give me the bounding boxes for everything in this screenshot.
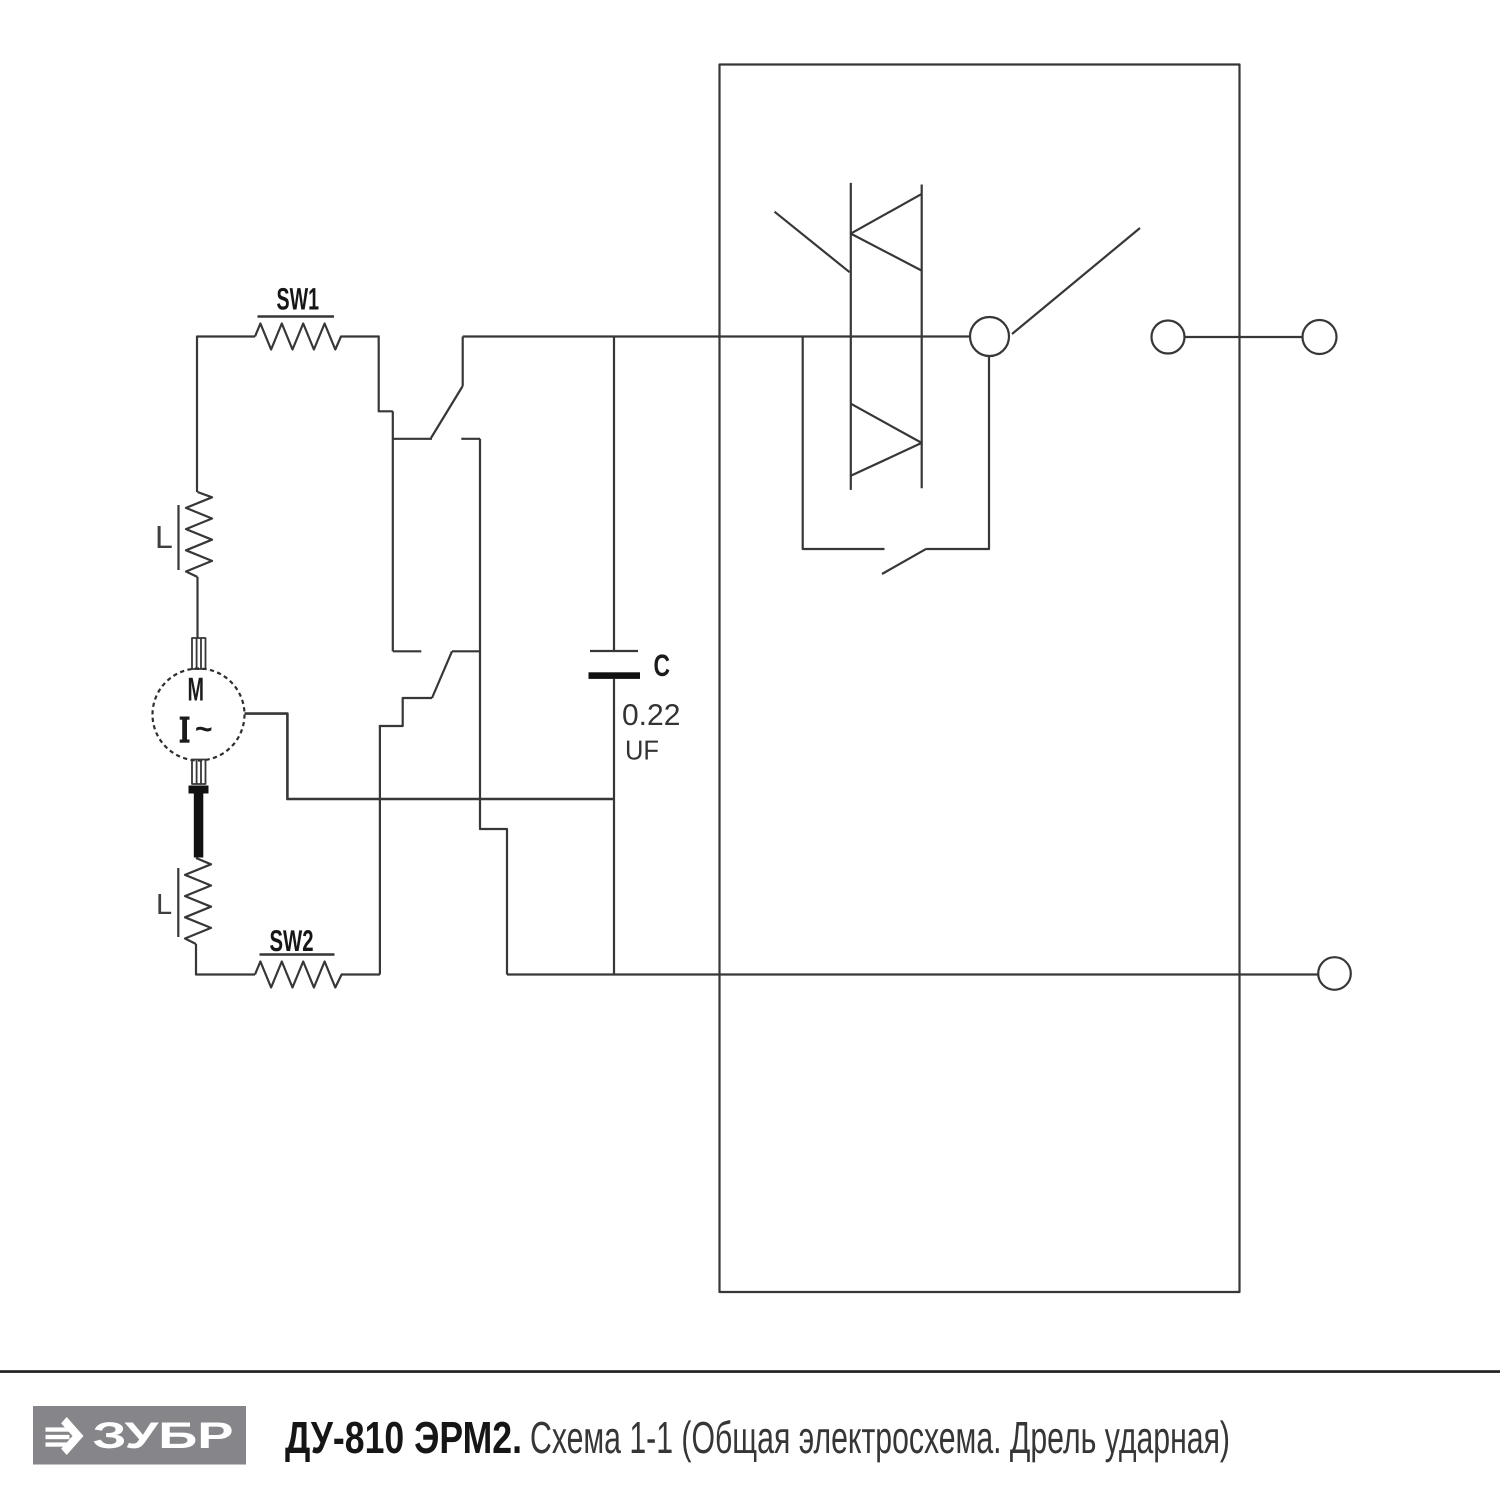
label L (lower) xyxy=(156,889,172,921)
logo diamond arrow xyxy=(46,1417,84,1455)
motor letter I xyxy=(180,717,190,743)
wire top main from throw 1a to pivot circle xyxy=(463,335,970,337)
svg-text:SW2: SW2 xyxy=(270,925,314,958)
enclosure box xyxy=(720,65,1240,1293)
capacitor C bottom plate (thick) xyxy=(589,672,641,679)
wire motor right to capacitor bottom xyxy=(245,714,615,799)
right bottom terminal circle xyxy=(1318,957,1351,990)
middle terminal circle xyxy=(1152,321,1185,354)
interrupter loop left vertical xyxy=(803,338,885,550)
wire coil to SW2 xyxy=(196,944,255,975)
svg-text:SW1: SW1 xyxy=(277,282,320,317)
triac right rail xyxy=(921,185,923,489)
motor letter M xyxy=(188,671,205,708)
switch arm open xyxy=(1012,228,1140,334)
motor M1 circle xyxy=(153,669,245,761)
motor brush box top xyxy=(192,638,206,669)
reversing switch throw 1b stub xyxy=(461,438,480,440)
svg-text:ЗУБР: ЗУБР xyxy=(93,1415,234,1456)
resistor SW2 xyxy=(255,962,380,988)
triac gate line xyxy=(775,212,850,273)
inductor L2 coil xyxy=(185,858,211,944)
wire vertical link between poles xyxy=(392,411,394,651)
pivot terminal circle xyxy=(970,317,1009,356)
motor brush box bottom xyxy=(192,760,206,785)
interrupter loop right segment xyxy=(926,357,989,550)
motor brush thick bar xyxy=(189,786,209,858)
reversing switch arm 2 xyxy=(432,651,452,698)
label L (upper) xyxy=(155,519,173,555)
right top terminal circle xyxy=(1303,320,1337,354)
svg-text:Схема 1-1 (Общая электросхема.: Схема 1-1 (Общая электросхема. Дрель уда… xyxy=(530,1412,1230,1463)
label UF xyxy=(625,735,659,766)
interrupter contact tick xyxy=(882,549,926,574)
motor tilde xyxy=(195,713,213,746)
reversing switch throw 1a vertical to top wire xyxy=(462,337,464,387)
inductor L1 core bar xyxy=(177,505,179,570)
wire SW2 up to reversing switch pole 2 xyxy=(379,726,381,975)
reversing switch pole 2 step xyxy=(379,698,432,726)
svg-text:L: L xyxy=(156,889,172,921)
triac lower triangle xyxy=(851,404,922,476)
wire coil to motor xyxy=(196,577,198,638)
triac left rail xyxy=(850,183,852,490)
footer separator line xyxy=(0,1370,1500,1373)
reversing switch throw 2b link xyxy=(452,650,480,652)
capacitor C top lead xyxy=(613,337,615,651)
svg-text:~: ~ xyxy=(195,713,213,746)
wire from throw 1b down and to bottom rail xyxy=(480,439,507,975)
svg-text:L: L xyxy=(155,519,173,555)
svg-text:C: C xyxy=(654,648,671,683)
inductor L1 coil xyxy=(186,492,212,577)
label C xyxy=(654,648,671,683)
reversing switch throw 2a stub xyxy=(393,650,422,652)
label SW1 xyxy=(277,282,320,317)
triac upper triangle xyxy=(851,194,922,271)
reversing switch arm 1 xyxy=(431,386,463,438)
logo gray box xyxy=(33,1406,246,1465)
wire bottom rail to terminal xyxy=(507,973,1318,975)
svg-text:ДУ-810 ЭРМ2.: ДУ-810 ЭРМ2. xyxy=(285,1412,522,1463)
label 0.22 xyxy=(622,699,680,732)
wire top-left from corner to SW1 xyxy=(197,337,255,493)
wire middle circle to right terminal xyxy=(1185,336,1303,338)
capacitor C top plate xyxy=(590,650,638,652)
svg-text:0.22: 0.22 xyxy=(622,699,680,732)
svg-text:M: M xyxy=(188,671,205,708)
inductor L2 core bar xyxy=(177,868,179,937)
reversing switch pole 1 step from SW1 xyxy=(379,336,432,439)
resistor SW1 xyxy=(255,324,379,350)
label SW2 xyxy=(270,925,314,958)
svg-text:UF: UF xyxy=(625,735,659,766)
capacitor C bottom lead xyxy=(613,679,615,975)
